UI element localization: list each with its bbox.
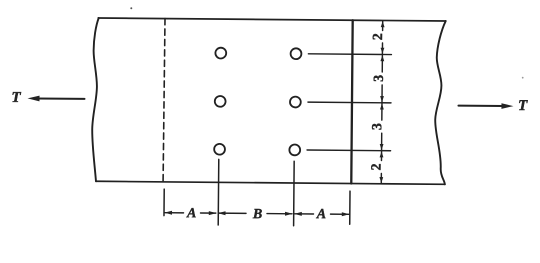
left T force arrow bbox=[37, 97, 84, 99]
rivet hole col1 row1 bbox=[215, 48, 226, 59]
leader line row1 bbox=[308, 53, 391, 56]
svg-text:A: A bbox=[316, 207, 326, 222]
svg-text:3: 3 bbox=[372, 75, 387, 82]
extension line below hole col2 bbox=[293, 161, 296, 225]
svg-text:B: B bbox=[252, 207, 262, 222]
speck artifact near top bbox=[130, 7, 132, 9]
rivet hole col2 row3 bbox=[289, 144, 300, 155]
svg-text:2: 2 bbox=[369, 163, 384, 170]
leader line row2 bbox=[308, 101, 391, 104]
svg-text:A: A bbox=[186, 206, 196, 221]
rivet hole col1 row2 bbox=[215, 96, 226, 107]
solid section line (thick) bbox=[351, 20, 352, 183]
svg-text:T: T bbox=[518, 98, 528, 114]
rivet hole col1 row3 bbox=[214, 144, 225, 155]
rivet hole col2 row1 bbox=[291, 48, 302, 59]
svg-text:T: T bbox=[11, 90, 21, 106]
plate left broken (wavy) edge bbox=[92, 18, 99, 181]
dim arrowheads vertical bbox=[379, 21, 384, 183]
svg-text:2: 2 bbox=[371, 33, 386, 40]
leader line row3 bbox=[307, 149, 390, 152]
vertical dimension line segments (2-3-3-2 stack) bbox=[381, 21, 382, 183]
extension line below dashed line bbox=[163, 189, 165, 215]
extension line below solid section line bbox=[349, 191, 351, 224]
right T force arrow bbox=[458, 105, 502, 107]
rivet hole col2 row2 bbox=[290, 97, 301, 108]
plate top edge bbox=[98, 18, 445, 21]
extension line below hole col1 bbox=[217, 159, 220, 225]
svg-text:3: 3 bbox=[370, 123, 385, 130]
plate bottom edge bbox=[96, 181, 445, 184]
plate right broken (wavy) edge bbox=[435, 21, 447, 184]
dimension A/B/A arrowheads bbox=[164, 211, 349, 217]
speck artifact right bbox=[522, 77, 524, 79]
dashed gauge line (left section line) bbox=[163, 19, 165, 182]
dimension A/B/A arrow shafts bbox=[165, 213, 349, 215]
